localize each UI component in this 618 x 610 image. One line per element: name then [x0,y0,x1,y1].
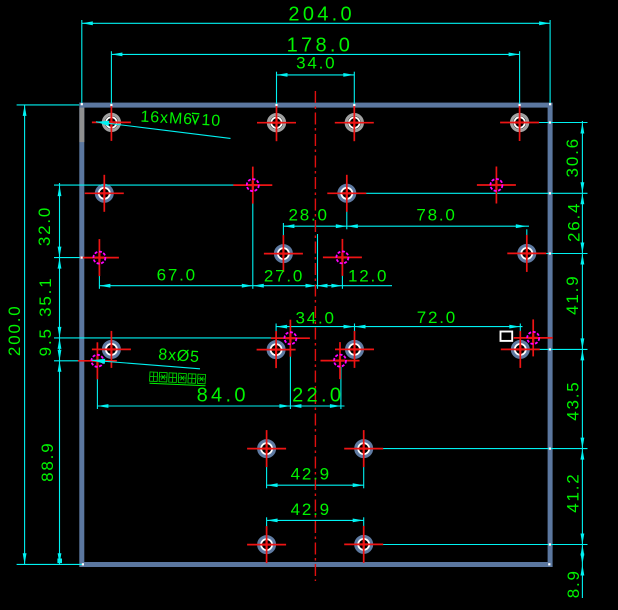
svg-text:12.0: 12.0 [348,266,388,285]
svg-text:42.9: 42.9 [291,500,331,519]
svg-text:204.0: 204.0 [288,3,355,25]
svg-text:78.0: 78.0 [416,205,456,224]
svg-text:8xØ5: 8xØ5 [158,346,201,366]
svg-text:67.0: 67.0 [157,266,197,285]
svg-text:35.1: 35.1 [36,277,55,317]
svg-text:42.9: 42.9 [291,465,331,484]
svg-text:43.5: 43.5 [563,380,582,420]
svg-text:34.0: 34.0 [296,54,336,73]
svg-text:27.0: 27.0 [264,266,304,285]
svg-text:28.0: 28.0 [288,206,328,225]
svg-text:22.0: 22.0 [292,385,344,407]
svg-text:200.0: 200.0 [5,305,24,357]
svg-text:41.2: 41.2 [563,472,582,512]
svg-text:88.9: 88.9 [38,442,57,482]
svg-text:84.0: 84.0 [197,385,249,407]
svg-text:10: 10 [201,112,222,130]
svg-text:16xM6: 16xM6 [140,108,193,128]
svg-text:72.0: 72.0 [417,308,457,327]
svg-text:9.5: 9.5 [36,327,55,356]
svg-text:26.4: 26.4 [564,202,583,242]
svg-text:34.0: 34.0 [295,308,335,327]
svg-text:30.6: 30.6 [563,137,582,177]
svg-text:8.9: 8.9 [564,569,583,598]
svg-text:41.9: 41.9 [563,275,582,315]
svg-text:32.0: 32.0 [35,206,54,246]
